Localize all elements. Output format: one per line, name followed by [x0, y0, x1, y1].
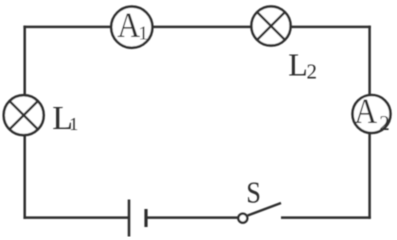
lamp L1: circle	[4, 95, 44, 135]
switch S: lever arm (open)	[248, 203, 281, 216]
svg-text:2: 2	[379, 111, 390, 135]
svg-text:2: 2	[307, 60, 318, 84]
lamp L2: circle	[251, 6, 290, 45]
lamp L2: cross diagonal 1	[257, 12, 285, 40]
svg-text:1: 1	[69, 114, 78, 134]
switch S: pivot circle	[238, 214, 247, 223]
wire bottom-middle (battery to switch)	[146, 216, 238, 219]
svg-text:L: L	[288, 46, 308, 82]
svg-text:A: A	[354, 92, 377, 131]
wire left	[23, 26, 26, 219]
wire bottom-left (corner to battery)	[23, 216, 129, 219]
wire bottom-right (switch to corner)	[281, 216, 371, 219]
svg-text:1: 1	[138, 23, 148, 45]
wire right	[368, 26, 371, 219]
svg-text:S: S	[246, 176, 261, 210]
lamp L1: cross diagonal 2	[10, 101, 38, 129]
lamp L1: cross diagonal 1	[10, 101, 38, 129]
wire top	[23, 26, 370, 29]
ammeter A1: circle	[111, 7, 152, 48]
lamp L2: cross diagonal 2	[257, 12, 285, 40]
svg-text:A: A	[117, 6, 140, 45]
battery cell: long plate	[128, 200, 131, 237]
ammeter A2: circle	[353, 95, 391, 133]
battery cell: short plate	[144, 209, 147, 227]
